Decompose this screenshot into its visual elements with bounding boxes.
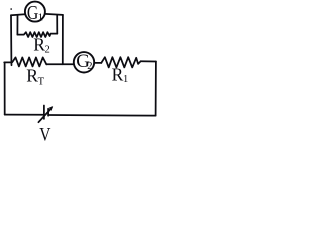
wire G1-box right vertical bbox=[62, 15, 64, 64]
svg-text:R: R bbox=[26, 65, 38, 85]
svg-text:R: R bbox=[112, 64, 124, 84]
wire G2 to T-junction to RT bbox=[46, 63, 74, 65]
wire R1 to G2 bbox=[94, 62, 101, 64]
svg-text:R: R bbox=[33, 34, 45, 54]
svg-text:2: 2 bbox=[87, 61, 92, 72]
galvanometer G2 circle bbox=[74, 52, 94, 72]
wire right vertical bbox=[155, 62, 157, 116]
wire inner-left vertical of R2 bbox=[16, 15, 18, 35]
resistor RT zigzag bbox=[11, 57, 46, 66]
svg-text:V: V bbox=[39, 125, 50, 146]
stray dot above top-left corner bbox=[10, 8, 12, 9]
battery variable arrow bbox=[38, 108, 52, 123]
wire bottom-left to battery bbox=[5, 114, 44, 116]
battery V long plate bbox=[43, 106, 45, 119]
wire top-left: corner to G1 bbox=[11, 14, 25, 15]
wire top-right: G1 to corner bbox=[45, 14, 63, 15]
svg-text:2: 2 bbox=[45, 44, 50, 55]
svg-text:1: 1 bbox=[38, 12, 44, 24]
resistor R1 zigzag bbox=[101, 57, 140, 67]
wire left vertical lower bbox=[4, 62, 6, 114]
wire junction stub bbox=[10, 62, 12, 65]
wire battery to bottom-right corner bbox=[48, 114, 156, 117]
battery arrow head bbox=[49, 106, 54, 111]
wire top-right corner to R1 bbox=[141, 60, 156, 62]
svg-text:G: G bbox=[27, 2, 38, 24]
wire inner-right vertical of R2 bbox=[56, 15, 58, 34]
battery V short plate bbox=[47, 109, 49, 116]
resistor R2 zigzag bbox=[17, 32, 57, 37]
wire jog at left middle junction bbox=[4, 61, 11, 63]
wire left vertical upper bbox=[10, 15, 12, 62]
svg-text:1: 1 bbox=[123, 74, 128, 85]
galvanometer G1 circle bbox=[25, 2, 45, 22]
svg-text:T: T bbox=[38, 77, 45, 88]
